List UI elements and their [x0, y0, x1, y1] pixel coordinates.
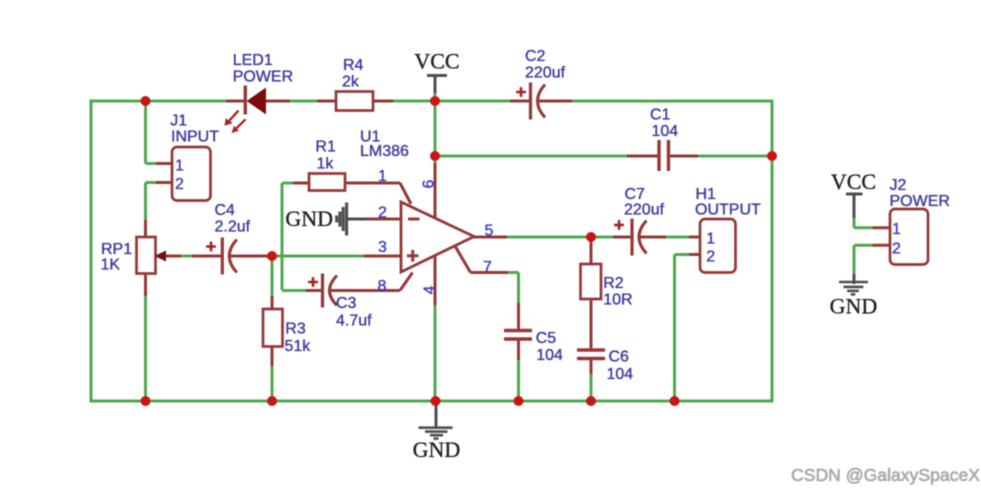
label U1 pin 5: [485, 223, 494, 240]
connector J1 body: [172, 147, 211, 201]
junction ground rail / C6: [586, 396, 596, 406]
svg-text:2: 2: [706, 249, 715, 266]
svg-text:GND: GND: [830, 294, 878, 319]
capacitor C4 polarity plus: [206, 242, 216, 252]
svg-text:10R: 10R: [603, 291, 632, 308]
wire C1 node to C1 left plate: [435, 155, 658, 158]
junction C1 node on VCC column: [430, 151, 440, 161]
label R2 reference: [603, 275, 624, 292]
wire GND symbol to U1 pin2: [347, 218, 401, 221]
wire VCC node to C2: [510, 100, 530, 103]
svg-text:2k: 2k: [342, 73, 360, 90]
svg-text:104: 104: [652, 123, 679, 140]
LED LED1 cathode bar: [244, 86, 247, 115]
label U1 pin 8: [378, 278, 387, 295]
capacitor C3 polarity plus: [308, 277, 318, 287]
label J2 pin 1: [892, 221, 901, 238]
svg-text:POWER: POWER: [890, 193, 950, 210]
label C1 value 104: [652, 123, 679, 140]
label LED1 value POWER: [233, 68, 293, 85]
label U1 value LM386: [360, 143, 409, 160]
svg-text:1K: 1K: [101, 256, 121, 273]
ground symbol GND (J2): [839, 282, 868, 294]
op-amp U1 inverting input mark: [408, 218, 420, 221]
svg-text:C2: C2: [525, 48, 546, 65]
wire R3 bottom to ground rail: [271, 346, 274, 401]
svg-text:R4: R4: [343, 57, 364, 74]
label U1 pin 2: [378, 205, 387, 222]
capacitor C7 polarity plus: [614, 220, 624, 230]
LED LED1 emission arrows: [225, 111, 246, 134]
label LED1 reference: [233, 52, 273, 69]
svg-text:C7: C7: [625, 186, 646, 203]
label U1 pin 7: [483, 259, 492, 276]
label H1 pin 2: [706, 249, 715, 266]
label U1 reference: [360, 128, 381, 145]
label R2 value 10R: [603, 291, 632, 308]
label C2 reference: [525, 48, 546, 65]
label C2 value 220uf: [525, 65, 566, 82]
junction ground rail / H1 pin2: [670, 396, 680, 406]
svg-text:INPUT: INPUT: [171, 129, 219, 146]
label C6 value 104: [607, 366, 634, 383]
label VCC (J2): [831, 169, 876, 194]
wire R1 to U1 pin1 with bend: [345, 183, 411, 204]
label GND (U1 pin2): [285, 206, 333, 231]
LED LED1 body: [248, 89, 266, 114]
label J1 reference: [170, 113, 187, 130]
label C7 reference: [625, 186, 646, 203]
svg-text:C5: C5: [536, 330, 557, 347]
svg-text:51k: 51k: [285, 338, 312, 355]
wire J2 pin2 to GND: [854, 245, 890, 284]
svg-text:LM386: LM386: [360, 143, 409, 160]
wire node A down to R3 top: [271, 256, 274, 309]
resistor R1: [309, 174, 345, 191]
wire bottom ground rail: [90, 400, 774, 403]
wire C5 bottom to ground rail: [517, 339, 520, 401]
wire right rail: [771, 101, 774, 401]
label R1 reference: [315, 139, 336, 156]
svg-text:C6: C6: [609, 348, 630, 365]
svg-text:1: 1: [378, 168, 387, 185]
label C1 reference: [650, 107, 671, 124]
svg-text:GND: GND: [413, 437, 461, 462]
label R1 value 1k: [317, 156, 335, 173]
wire C6 bottom to ground rail: [590, 358, 593, 401]
svg-text:GND: GND: [285, 206, 333, 231]
label C6 reference: [609, 348, 630, 365]
wire VCC to J2 pin1: [854, 226, 890, 229]
svg-text:R1: R1: [315, 139, 336, 156]
wire RP1 bottom to ground rail: [144, 274, 147, 401]
ground symbol GND (U1 pin2): [337, 203, 347, 236]
ground symbol GND (bottom rail): [419, 403, 453, 439]
label C5 value 104: [536, 347, 563, 364]
label C4 reference: [215, 202, 236, 219]
capacitor C3 (polarized): [323, 274, 338, 308]
capacitor C4 (polarized): [222, 238, 237, 275]
label H1 value OUTPUT: [695, 202, 761, 219]
wire top VCC rail segment left (GND return to LED cathode): [90, 100, 245, 103]
junction ground rail / R3: [267, 396, 277, 406]
svg-text:4.7uf: 4.7uf: [336, 313, 372, 330]
svg-text:R3: R3: [285, 320, 306, 337]
label J1 value INPUT: [171, 129, 219, 146]
label R3 reference: [285, 320, 306, 337]
svg-text:104: 104: [607, 366, 634, 383]
label GND (bottom): [413, 437, 461, 462]
resistor R4: [336, 92, 373, 111]
wire C1 right plate to right rail: [669, 155, 772, 158]
svg-text:5: 5: [485, 223, 494, 240]
svg-text:CSDN @GalaxySpaceX: CSDN @GalaxySpaceX: [791, 465, 980, 485]
svg-text:1: 1: [706, 231, 715, 248]
junction VCC node: [430, 96, 440, 106]
label U1 pin 4: [422, 285, 439, 294]
label H1 reference: [696, 186, 717, 203]
wire output node to C7 plus plate: [591, 236, 631, 239]
label J2 pin 2: [892, 240, 901, 257]
capacitor C6: [577, 350, 605, 359]
label U1 pin 6: [421, 179, 438, 188]
wire RP1 wiper to C4 plus plate: [165, 255, 222, 258]
wire VCC node down to C1 node: [434, 101, 437, 156]
label U1 pin 1: [378, 168, 387, 185]
svg-text:104: 104: [536, 347, 563, 364]
watermark text: [791, 465, 980, 485]
capacitor C2 (polarized): [531, 83, 546, 120]
wire C4 minus plate to node A: [229, 255, 270, 258]
resistor R2: [581, 264, 602, 299]
connector J2 body: [890, 209, 928, 265]
resistor R3: [263, 309, 283, 347]
wire C7 minus plate to H1 pin1: [638, 236, 700, 239]
svg-text:VCC: VCC: [414, 49, 459, 74]
wire top rail to J1 pin1: [146, 101, 173, 164]
svg-text:1: 1: [175, 158, 184, 175]
label J1 pin 2: [175, 176, 184, 193]
label C3 value 4.7uf: [336, 313, 372, 330]
wire J1 pin2 to RP1 top: [146, 183, 173, 238]
capacitor C5: [504, 331, 532, 340]
label C4 value 2.2uf: [215, 219, 251, 236]
svg-text:2: 2: [892, 240, 901, 257]
wire U1 pin5 to output node: [473, 236, 591, 239]
label J1 pin 1: [175, 158, 184, 175]
potentiometer RP1 wiper arrow: [155, 251, 167, 262]
connector H1 body: [700, 219, 736, 273]
svg-text:C1: C1: [650, 107, 671, 124]
op-amp U1 body: [401, 202, 474, 272]
wire LED anode to R4: [265, 100, 336, 103]
svg-text:6: 6: [421, 179, 438, 188]
svg-text:J2: J2: [890, 177, 907, 194]
label J2 value POWER: [890, 193, 950, 210]
wire R4 to VCC node: [373, 100, 510, 103]
svg-text:2: 2: [175, 176, 184, 193]
junction ground rail / U1 pin4: [431, 396, 441, 406]
svg-text:OUTPUT: OUTPUT: [695, 202, 761, 219]
svg-text:2.2uf: 2.2uf: [215, 219, 251, 236]
wire C2 to top-right corner: [537, 100, 774, 103]
label VCC (top): [414, 49, 459, 74]
label RP1 reference: [101, 241, 132, 258]
junction output node (pin5 / R2 / C7): [586, 232, 596, 242]
svg-text:VCC: VCC: [831, 169, 876, 194]
junction C1 row / right rail: [767, 151, 777, 161]
power symbol VCC (top): [427, 76, 447, 102]
capacitor C1: [659, 140, 669, 171]
wire C3 branch to C3 plus plate: [282, 289, 322, 292]
svg-text:C4: C4: [215, 202, 236, 219]
svg-text:J1: J1: [170, 113, 187, 130]
svg-text:H1: H1: [696, 186, 717, 203]
svg-text:C3: C3: [336, 295, 357, 312]
svg-text:POWER: POWER: [233, 68, 293, 85]
svg-text:LED1: LED1: [233, 52, 273, 69]
wire node A to U1 pin3: [272, 255, 401, 258]
svg-text:220uf: 220uf: [624, 202, 665, 219]
svg-text:R2: R2: [603, 275, 624, 292]
label R4 reference: [343, 57, 364, 74]
wire U1 pin7 bend to C5 top: [455, 246, 519, 330]
label R3 value 51k: [285, 338, 312, 355]
wire left rail (ground return): [90, 100, 93, 403]
svg-text:3: 3: [378, 239, 387, 256]
junction ground rail / RP1: [141, 396, 151, 406]
wire C1 node to U1 pin6: [434, 156, 437, 220]
node A junction (C4 / pin3 / R3): [267, 251, 277, 261]
svg-text:220uf: 220uf: [525, 65, 566, 82]
label H1 pin 1: [706, 231, 715, 248]
label GND (J2): [830, 294, 878, 319]
label C3 reference: [336, 295, 357, 312]
label C7 value 220uf: [624, 202, 665, 219]
capacitor C2 polarity plus: [516, 87, 526, 97]
junction ground rail / C5: [514, 396, 524, 406]
wire R2 bottom to C6 top: [590, 299, 593, 350]
junction top rail / J1 pin1 column: [141, 96, 151, 106]
svg-text:1k: 1k: [317, 156, 335, 173]
wire R1 left vertical branch: [282, 183, 309, 290]
svg-text:7: 7: [483, 259, 492, 276]
wire U1 pin4 down to ground rail: [434, 254, 437, 402]
op-amp U1 non-inverting input mark: [407, 250, 419, 262]
svg-text:4: 4: [422, 285, 439, 294]
wire output node to R2 top: [590, 237, 593, 264]
label J2 reference: [890, 177, 907, 194]
label U1 pin 3: [378, 239, 387, 256]
wire C3 minus plate to U1 pin8 with bend: [329, 273, 413, 291]
label RP1 value 1K: [101, 256, 121, 273]
potentiometer RP1 body: [137, 237, 156, 274]
power symbol VCC (J2): [846, 194, 863, 228]
label C5 reference: [536, 330, 557, 347]
label R4 value 2k: [342, 73, 360, 90]
svg-text:2: 2: [378, 205, 387, 222]
svg-text:8: 8: [378, 278, 387, 295]
capacitor C7 (polarized): [632, 219, 647, 256]
svg-text:1: 1: [892, 221, 901, 238]
wire H1 pin2 to ground rail: [675, 255, 701, 402]
